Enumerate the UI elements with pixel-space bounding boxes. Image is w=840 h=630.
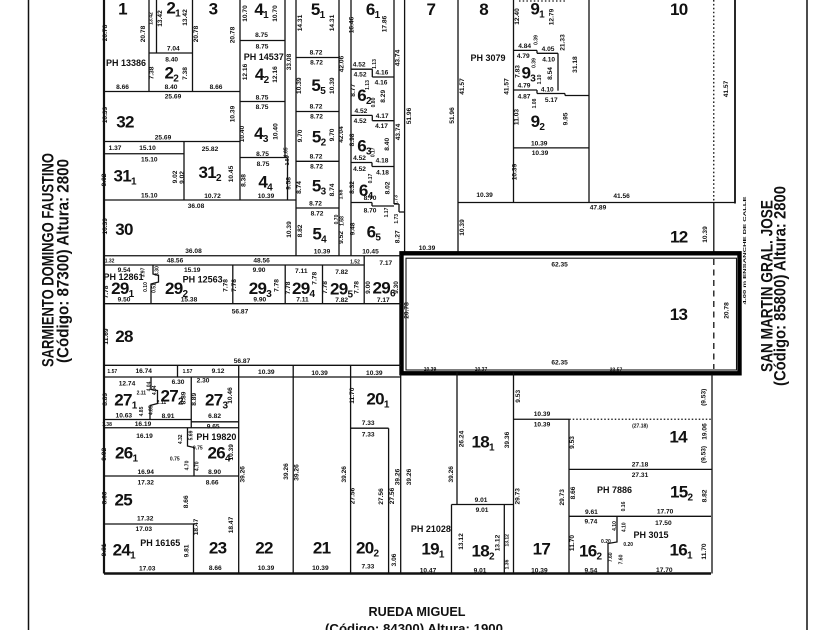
svg-text:41.57: 41.57 — [723, 80, 730, 97]
svg-text:39.26: 39.26 — [394, 468, 401, 485]
parcel 29-4 — [285, 265, 323, 304]
svg-text:7.33: 7.33 — [362, 420, 375, 427]
parcel 6-5 — [350, 222, 402, 255]
svg-text:7.78: 7.78 — [223, 279, 230, 292]
svg-text:10.39: 10.39 — [102, 218, 109, 235]
svg-text:3.06: 3.06 — [391, 553, 398, 566]
svg-text:0.51: 0.51 — [152, 283, 158, 293]
line bottom of 29 strip — [104, 304, 401, 316]
svg-text:10.39: 10.39 — [311, 370, 328, 377]
svg-text:(9.53): (9.53) — [701, 446, 708, 463]
parcel 27-2 — [157, 377, 192, 428]
svg-text:10.40: 10.40 — [273, 123, 280, 140]
svg-text:7.83: 7.83 — [514, 65, 521, 78]
parcel 4-4 — [240, 158, 287, 201]
svg-text:14.31: 14.31 — [297, 14, 304, 31]
svg-text:PH 19820: PH 19820 — [196, 432, 236, 442]
svg-text:4.16: 4.16 — [375, 70, 388, 77]
svg-text:9.52: 9.52 — [338, 231, 345, 244]
svg-text:9.01: 9.01 — [475, 497, 488, 504]
parcel 7 — [395, 0, 456, 253]
parcel 6-2 — [350, 80, 394, 130]
parcel 9-2 — [512, 93, 590, 180]
svg-text:9.02: 9.02 — [179, 171, 186, 184]
svg-text:9.12: 9.12 — [212, 368, 225, 375]
svg-text:8.40: 8.40 — [165, 57, 178, 64]
svg-text:9.48: 9.48 — [350, 222, 357, 235]
svg-text:7.78: 7.78 — [353, 281, 360, 294]
svg-text:9.01: 9.01 — [474, 567, 487, 574]
svg-text:16.74: 16.74 — [135, 368, 152, 375]
svg-text:8.66: 8.66 — [209, 565, 222, 572]
svg-text:20.78: 20.78 — [140, 25, 147, 42]
svg-text:7.04: 7.04 — [167, 46, 180, 53]
svg-text:10.39: 10.39 — [102, 106, 109, 123]
svg-text:10.47: 10.47 — [420, 567, 437, 574]
svg-text:10: 10 — [670, 0, 688, 19]
parcel 21 — [294, 365, 351, 573]
parcel 14 — [569, 389, 712, 574]
svg-text:13.12: 13.12 — [494, 534, 501, 551]
svg-text:21: 21 — [313, 539, 331, 558]
svg-text:9.70: 9.70 — [329, 128, 336, 141]
svg-text:27.56: 27.56 — [378, 488, 385, 505]
svg-text:8.72: 8.72 — [310, 164, 323, 171]
svg-text:1.73: 1.73 — [394, 214, 400, 224]
parcel 19-1 — [411, 373, 457, 575]
svg-text:28: 28 — [115, 327, 133, 346]
svg-text:0.80: 0.80 — [371, 97, 377, 107]
svg-text:7.78: 7.78 — [274, 279, 281, 292]
svg-text:9.00: 9.00 — [365, 281, 372, 294]
parcel 31-1 — [101, 142, 184, 201]
parcel 4-3 — [239, 123, 288, 158]
svg-text:7.60: 7.60 — [608, 552, 614, 562]
svg-text:1.17: 1.17 — [384, 207, 390, 217]
svg-text:8.66: 8.66 — [183, 495, 190, 508]
svg-text:8.82: 8.82 — [297, 224, 304, 237]
svg-text:2.11: 2.11 — [137, 391, 147, 397]
svg-text:20.78: 20.78 — [723, 302, 730, 319]
svg-text:12.40: 12.40 — [514, 8, 521, 25]
svg-text:8.90: 8.90 — [208, 469, 221, 476]
parcel 29-1 — [103, 265, 161, 304]
svg-text:21.33: 21.33 — [560, 34, 567, 51]
svg-text:0.17: 0.17 — [371, 147, 377, 157]
parcel 2-1 — [148, 0, 192, 92]
svg-text:7.60: 7.60 — [619, 554, 625, 564]
parcel 18-1 — [452, 430, 514, 514]
street label San Martin Gral. Jose — [758, 186, 790, 386]
parcel 18-2 — [458, 505, 511, 575]
svg-text:14.31: 14.31 — [329, 14, 336, 31]
svg-text:9.81: 9.81 — [183, 544, 190, 557]
parcel 9-1 — [514, 0, 590, 203]
svg-text:PH 13386: PH 13386 — [106, 58, 146, 68]
svg-text:1.36: 1.36 — [504, 559, 510, 569]
svg-text:4.52: 4.52 — [354, 72, 367, 79]
block outline west edge — [103, 0, 105, 574]
block outline south edge — [104, 572, 711, 575]
svg-text:1.80: 1.80 — [285, 155, 291, 165]
svg-text:11.69: 11.69 — [103, 328, 110, 344]
svg-text:10.39: 10.39 — [476, 192, 493, 199]
svg-text:43.74: 43.74 — [395, 49, 402, 66]
svg-text:10.39: 10.39 — [296, 77, 303, 94]
svg-text:4.70: 4.70 — [184, 460, 190, 470]
svg-text:1.68: 1.68 — [340, 216, 346, 226]
svg-text:9.02: 9.02 — [101, 448, 108, 461]
svg-text:0.39: 0.39 — [534, 35, 540, 45]
svg-text:12: 12 — [670, 228, 688, 247]
svg-text:9.61: 9.61 — [585, 509, 598, 516]
svg-text:25.82: 25.82 — [202, 146, 219, 153]
svg-text:11.70: 11.70 — [701, 543, 708, 559]
parcel 30 — [102, 200, 296, 255]
svg-text:16.19: 16.19 — [135, 421, 152, 428]
svg-text:4.84: 4.84 — [518, 43, 531, 50]
svg-text:9.54: 9.54 — [584, 567, 597, 574]
parcel 13 ensanche dashed line — [713, 259, 715, 369]
svg-text:7.78: 7.78 — [231, 279, 238, 292]
svg-text:7.78: 7.78 — [311, 272, 318, 285]
parcel 2-2 — [149, 64, 189, 92]
parcel 27-3 — [104, 378, 239, 422]
svg-text:16.46: 16.46 — [349, 16, 356, 33]
svg-text:(Código: 84300) Altura: 1900: (Código: 84300) Altura: 1900 — [325, 621, 503, 630]
svg-text:17: 17 — [533, 540, 551, 559]
svg-text:PH 21028: PH 21028 — [411, 524, 451, 534]
svg-text:7.33: 7.33 — [361, 564, 374, 571]
svg-text:8.75: 8.75 — [255, 32, 268, 39]
svg-text:10.39: 10.39 — [230, 105, 237, 122]
svg-text:10.39: 10.39 — [534, 411, 551, 418]
svg-text:4.18: 4.18 — [376, 157, 389, 164]
svg-text:(Código: 87300) Altura: 2800: (Código: 87300) Altura: 2800 — [54, 159, 73, 363]
svg-text:39.26: 39.26 — [294, 464, 301, 481]
svg-text:8.75: 8.75 — [256, 151, 269, 158]
svg-text:(27.18): (27.18) — [632, 424, 648, 430]
svg-text:10.70: 10.70 — [272, 5, 279, 22]
svg-text:8.38: 8.38 — [240, 174, 247, 187]
svg-text:10.39: 10.39 — [531, 567, 548, 574]
svg-text:27.56: 27.56 — [349, 487, 356, 504]
svg-text:9.50: 9.50 — [118, 296, 131, 303]
svg-text:PH 14537: PH 14537 — [244, 52, 284, 62]
svg-text:25.69: 25.69 — [155, 135, 172, 142]
svg-text:8.72: 8.72 — [310, 154, 323, 161]
svg-text:8.27: 8.27 — [395, 230, 402, 243]
parcel 20-1 — [349, 387, 390, 438]
svg-text:10.45: 10.45 — [228, 165, 235, 182]
svg-text:4.17: 4.17 — [375, 123, 388, 130]
svg-text:56.87: 56.87 — [234, 358, 251, 365]
svg-text:3.97: 3.97 — [141, 267, 147, 277]
svg-text:11.03: 11.03 — [514, 109, 521, 125]
svg-text:8.72: 8.72 — [310, 104, 323, 111]
parcel 27-1 — [102, 377, 158, 420]
svg-text:11.70: 11.70 — [349, 387, 356, 403]
svg-text:13.12: 13.12 — [504, 534, 510, 547]
parcel 29-2 — [165, 265, 233, 304]
svg-text:15.19: 15.19 — [184, 267, 201, 274]
svg-text:13: 13 — [670, 305, 688, 324]
svg-text:17.50: 17.50 — [655, 520, 672, 527]
svg-text:4.70: 4.70 — [194, 461, 200, 471]
svg-text:7.78: 7.78 — [322, 281, 329, 294]
svg-text:4.87: 4.87 — [518, 93, 531, 100]
svg-text:0.20: 0.20 — [601, 539, 611, 545]
svg-text:4.18: 4.18 — [376, 169, 389, 176]
parcel 6-1 — [349, 0, 394, 204]
svg-text:17.03: 17.03 — [136, 526, 153, 533]
svg-text:8.54: 8.54 — [547, 67, 554, 80]
parcel 6-3 — [349, 133, 394, 176]
svg-text:3.30: 3.30 — [155, 266, 161, 276]
svg-text:13.42: 13.42 — [182, 9, 189, 26]
parcel 32 — [102, 105, 240, 141]
dimension band — [104, 365, 401, 377]
svg-text:0.10: 0.10 — [143, 282, 149, 292]
parcel 5-2 — [296, 128, 339, 171]
parcel 8 — [458, 0, 511, 253]
street line San Martin (right) — [806, 0, 808, 630]
svg-text:7.82: 7.82 — [335, 297, 348, 304]
svg-text:41.57: 41.57 — [459, 78, 466, 95]
svg-text:9.53: 9.53 — [569, 436, 576, 449]
svg-text:10.39: 10.39 — [424, 367, 437, 373]
svg-text:17.32: 17.32 — [137, 516, 154, 523]
svg-text:12.16: 12.16 — [242, 63, 249, 80]
svg-text:5.69: 5.69 — [188, 430, 194, 440]
svg-text:1.73: 1.73 — [394, 195, 400, 205]
svg-text:12.79: 12.79 — [548, 8, 555, 25]
svg-text:9.81: 9.81 — [101, 543, 108, 556]
svg-text:RUEDA MIGUEL: RUEDA MIGUEL — [369, 604, 466, 619]
parcel 17 — [514, 373, 570, 575]
svg-text:1.08: 1.08 — [532, 98, 538, 108]
line top of 29 boxes — [104, 264, 364, 266]
line top of 29 strip — [104, 256, 401, 266]
svg-text:4.10: 4.10 — [541, 86, 554, 93]
svg-text:25: 25 — [114, 491, 132, 510]
future street line (dotted) — [713, 0, 715, 203]
parcel 26-4 — [104, 423, 239, 486]
svg-text:10.70: 10.70 — [242, 5, 249, 22]
parcel 22 — [240, 365, 294, 573]
svg-text:8.72: 8.72 — [310, 50, 323, 57]
street label Sarmiento Domingo Faustino — [39, 153, 73, 367]
svg-text:7.11: 7.11 — [296, 297, 309, 304]
svg-text:14: 14 — [669, 428, 688, 447]
svg-text:8.82: 8.82 — [702, 489, 709, 502]
svg-text:8.66: 8.66 — [206, 480, 219, 487]
svg-text:10.39: 10.39 — [314, 249, 331, 256]
svg-text:17.70: 17.70 — [656, 567, 673, 574]
svg-text:20.78: 20.78 — [193, 25, 200, 42]
svg-text:7.11: 7.11 — [295, 268, 308, 275]
svg-text:62.35: 62.35 — [551, 262, 568, 269]
svg-text:10.39: 10.39 — [531, 141, 548, 148]
svg-text:7.17: 7.17 — [379, 260, 392, 267]
svg-text:8.75: 8.75 — [256, 104, 269, 111]
svg-text:8.40: 8.40 — [384, 138, 391, 151]
parcel 4-2 — [240, 52, 285, 111]
svg-text:4.79: 4.79 — [518, 83, 531, 90]
svg-text:15.10: 15.10 — [141, 192, 158, 199]
svg-text:25.69: 25.69 — [165, 94, 182, 101]
strip 3.06 — [389, 374, 413, 573]
svg-text:17.70: 17.70 — [657, 508, 674, 515]
parcel 5-3 — [296, 177, 339, 218]
svg-text:4.52: 4.52 — [354, 118, 367, 125]
svg-text:4.52: 4.52 — [353, 166, 366, 173]
svg-text:33.08: 33.08 — [286, 53, 293, 70]
svg-text:33.57: 33.57 — [610, 367, 623, 373]
svg-text:9.30: 9.30 — [393, 281, 400, 294]
svg-text:10.39: 10.39 — [459, 219, 466, 236]
svg-text:6.30: 6.30 — [172, 379, 185, 386]
svg-text:9.70: 9.70 — [297, 129, 304, 142]
svg-text:10.72: 10.72 — [204, 193, 221, 200]
svg-text:7.82: 7.82 — [335, 269, 348, 276]
svg-text:10.39: 10.39 — [228, 444, 235, 461]
parcel 13 labels — [404, 262, 731, 374]
parcel 9-3 — [514, 53, 590, 95]
svg-text:2.11: 2.11 — [157, 400, 167, 406]
svg-text:8.74: 8.74 — [296, 181, 303, 194]
svg-text:10.46: 10.46 — [227, 387, 234, 404]
svg-text:42.04: 42.04 — [338, 126, 345, 143]
svg-text:12.74: 12.74 — [119, 380, 136, 387]
svg-text:0.20: 0.20 — [623, 542, 633, 548]
svg-text:15.38: 15.38 — [181, 296, 198, 303]
svg-text:0.75: 0.75 — [193, 446, 203, 452]
parcel 3 — [104, 0, 240, 200]
svg-text:10.39: 10.39 — [329, 77, 336, 94]
svg-text:39.26: 39.26 — [406, 468, 413, 485]
svg-text:1.32: 1.32 — [105, 259, 115, 265]
svg-text:8.32: 8.32 — [349, 181, 356, 194]
svg-text:4.10: 4.10 — [612, 521, 618, 531]
svg-text:PH 3079: PH 3079 — [470, 53, 505, 63]
svg-text:10.39: 10.39 — [532, 150, 549, 157]
parcel 13 highlighted boundary — [402, 253, 740, 373]
svg-text:17.32: 17.32 — [137, 480, 154, 487]
svg-text:7: 7 — [427, 0, 436, 19]
svg-text:1: 1 — [118, 0, 127, 19]
svg-text:PH 3015: PH 3015 — [633, 530, 668, 540]
svg-text:8.89: 8.89 — [191, 393, 198, 406]
svg-text:41.57: 41.57 — [504, 78, 511, 95]
svg-text:8.66: 8.66 — [210, 84, 223, 91]
svg-text:17.86: 17.86 — [382, 15, 389, 32]
svg-text:10.39: 10.39 — [534, 422, 551, 429]
svg-text:10.45: 10.45 — [362, 249, 379, 256]
svg-text:15.10: 15.10 — [141, 157, 158, 164]
svg-text:0.75: 0.75 — [170, 456, 180, 462]
svg-text:9.53: 9.53 — [515, 390, 522, 403]
parcel 29-5 — [322, 256, 364, 304]
svg-text:3: 3 — [209, 0, 218, 19]
svg-text:51.96: 51.96 — [406, 107, 413, 124]
svg-text:15.10: 15.10 — [139, 145, 156, 152]
svg-text:PH 16165: PH 16165 — [140, 538, 180, 548]
line bottom of parcels 8,9,10 — [458, 193, 735, 203]
svg-text:1.37: 1.37 — [109, 145, 122, 152]
svg-text:7.17: 7.17 — [377, 297, 390, 304]
svg-text:27.31: 27.31 — [632, 472, 649, 479]
svg-text:7.38: 7.38 — [149, 66, 156, 79]
parcel 28 — [103, 327, 401, 365]
svg-text:8.75: 8.75 — [257, 161, 270, 168]
strip 5/6 dims — [334, 0, 351, 256]
svg-text:10.39: 10.39 — [366, 370, 383, 377]
svg-text:0.16: 0.16 — [621, 501, 627, 511]
svg-text:39.26: 39.26 — [448, 466, 455, 483]
svg-text:10.39: 10.39 — [512, 163, 519, 180]
svg-text:56.87: 56.87 — [232, 309, 249, 316]
parcel 31-2 — [179, 146, 235, 200]
svg-text:4.00 m ENSANCHE DE CALLE: 4.00 m ENSANCHE DE CALLE — [742, 195, 748, 304]
svg-text:4.85: 4.85 — [139, 406, 145, 416]
svg-text:1.10: 1.10 — [537, 74, 543, 84]
svg-text:8.02: 8.02 — [385, 181, 392, 194]
svg-text:6.82: 6.82 — [208, 413, 221, 420]
svg-text:10.39: 10.39 — [258, 369, 275, 376]
svg-text:18.47: 18.47 — [193, 518, 200, 535]
svg-text:9.90: 9.90 — [253, 296, 266, 303]
svg-text:4.52: 4.52 — [353, 155, 366, 162]
svg-text:7.78: 7.78 — [103, 285, 110, 298]
svg-text:(9.53): (9.53) — [701, 389, 708, 406]
svg-text:9.95: 9.95 — [563, 112, 570, 125]
svg-text:4.79: 4.79 — [517, 53, 530, 60]
parcel 15-2 — [569, 483, 711, 517]
svg-text:18.47: 18.47 — [228, 516, 235, 533]
svg-text:10.39: 10.39 — [419, 245, 436, 252]
svg-text:4.52: 4.52 — [354, 108, 367, 115]
svg-text:29.73: 29.73 — [559, 489, 566, 506]
parcel 12 — [459, 203, 714, 253]
svg-text:8: 8 — [479, 0, 488, 19]
svg-text:4.52: 4.52 — [353, 62, 366, 69]
svg-text:4.10: 4.10 — [542, 56, 555, 63]
svg-text:13.42: 13.42 — [148, 12, 154, 25]
svg-text:48.56: 48.56 — [167, 258, 184, 265]
svg-text:48.56: 48.56 — [253, 258, 270, 265]
svg-text:8.66: 8.66 — [570, 486, 577, 499]
svg-text:2.30: 2.30 — [197, 378, 210, 385]
parcel 29-3 — [231, 265, 285, 304]
svg-text:8.40: 8.40 — [165, 84, 178, 91]
svg-text:9.58: 9.58 — [286, 177, 293, 190]
strip 4/5 dims — [284, 0, 296, 256]
street line Sarmiento (left) — [28, 0, 30, 630]
svg-text:4.17: 4.17 — [376, 113, 389, 120]
svg-text:8.72: 8.72 — [311, 211, 324, 218]
parcel 16-1 — [633, 374, 712, 574]
svg-text:10.39: 10.39 — [258, 565, 275, 572]
svg-text:8.98: 8.98 — [349, 133, 356, 146]
svg-text:10.63: 10.63 — [116, 412, 133, 419]
svg-text:20.78: 20.78 — [404, 302, 411, 319]
parcel 5-5 — [296, 76, 339, 121]
label ensanche de calle — [742, 195, 748, 304]
svg-text:4.16: 4.16 — [375, 79, 388, 86]
svg-text:16.94: 16.94 — [137, 469, 154, 476]
parcel 5-4 — [297, 224, 331, 255]
